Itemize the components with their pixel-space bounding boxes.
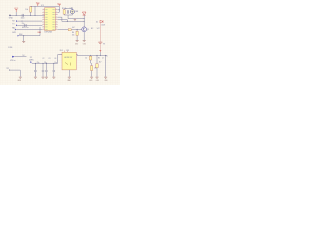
wire collector vertical xyxy=(83,19,85,27)
ic IC1 pins right xyxy=(55,10,57,30)
ground cap3 xyxy=(45,77,48,78)
capacitor column 3 xyxy=(45,63,47,76)
relay bottom stub xyxy=(68,70,70,77)
diode D1 red xyxy=(82,12,86,15)
capacitor C4 series xyxy=(25,24,26,27)
wire pulldown bottom xyxy=(76,35,78,40)
ic IC1 body xyxy=(45,8,56,31)
svg-text:GND: GND xyxy=(96,80,99,82)
power flag VCC mid xyxy=(36,3,41,7)
relay inner contacts xyxy=(65,63,71,66)
junction W1 xyxy=(22,21,23,22)
buzzer LS1 xyxy=(70,10,74,14)
svg-text:GND: GND xyxy=(104,80,107,82)
resistor R3 xyxy=(89,56,91,60)
power flag VCC right of IC xyxy=(57,3,62,6)
junction xyxy=(16,15,17,16)
svg-text:4k7: 4k7 xyxy=(99,62,102,64)
svg-text:RL1: RL1 xyxy=(60,50,63,52)
svg-text:GND: GND xyxy=(9,17,14,19)
svg-text:10k: 10k xyxy=(25,9,28,11)
svg-text:C6: C6 xyxy=(54,58,56,60)
svg-text:100n: 100n xyxy=(21,17,25,19)
junction base pulldown xyxy=(77,29,78,30)
svg-text:GND: GND xyxy=(89,80,92,82)
svg-text:HK19F 5V: HK19F 5V xyxy=(64,57,73,59)
junction xyxy=(59,9,60,10)
relay left stub xyxy=(59,54,62,56)
svg-text:GND: GND xyxy=(83,44,86,46)
wire W1 xyxy=(18,20,43,22)
svg-text:16F628A: 16F628A xyxy=(44,30,52,33)
svg-text:GND: GND xyxy=(75,44,78,46)
wire emitter xyxy=(83,32,85,41)
bus wire bottom right xyxy=(77,55,107,56)
ground cap1 xyxy=(34,77,37,78)
net flag W4 blue xyxy=(18,35,20,37)
svg-text:22p: 22p xyxy=(22,23,25,25)
svg-text:4k7: 4k7 xyxy=(72,27,75,29)
svg-text:4148: 4148 xyxy=(101,25,105,27)
resistor R2 vertical xyxy=(63,10,65,15)
svg-text:10k: 10k xyxy=(72,34,75,36)
svg-text:547: 547 xyxy=(97,28,100,30)
wire from flag xyxy=(15,56,27,58)
resistor R1 xyxy=(30,7,32,13)
svg-text:VDD in: VDD in xyxy=(10,60,15,62)
relay top stubs xyxy=(64,51,67,53)
wire vcc rail top xyxy=(31,6,60,15)
junction xyxy=(100,55,101,56)
ground A xyxy=(90,77,93,78)
junction bus B xyxy=(96,55,97,56)
junction xyxy=(67,21,68,22)
relay RL1 body xyxy=(62,52,76,70)
buzzer inner mark xyxy=(71,11,73,13)
transistor Q1 xyxy=(82,27,87,32)
junction xyxy=(30,15,31,16)
svg-text:RB4: RB4 xyxy=(19,34,22,36)
junction xyxy=(84,21,85,22)
ic IC1 pin numbers outside xyxy=(43,9,57,29)
junction bus A xyxy=(90,55,91,56)
resistor R6 horizontal xyxy=(68,29,71,31)
wire column C xyxy=(105,55,107,76)
svg-text:C2: C2 xyxy=(42,58,44,60)
wire pulldown top xyxy=(76,29,78,31)
wire cap bus xyxy=(32,55,62,64)
svg-text:D2: D2 xyxy=(96,22,98,24)
junction bus C xyxy=(105,55,106,56)
ic IC1 pin name dashes inner xyxy=(45,10,54,30)
net flag W1 blue xyxy=(16,20,18,22)
svg-text:22p: 22p xyxy=(37,62,40,64)
junction xyxy=(35,15,36,16)
svg-text:SW1: SW1 xyxy=(12,32,16,34)
ground relay xyxy=(68,77,71,78)
wire second branch xyxy=(58,20,68,22)
wire net VCC rail left xyxy=(10,14,44,16)
svg-text:RA4: RA4 xyxy=(38,31,41,34)
ground B xyxy=(96,77,99,78)
wire D3 down xyxy=(91,71,93,77)
wire osc top xyxy=(64,8,72,11)
pin pad left end xyxy=(9,15,10,16)
svg-text:IC1: IC1 xyxy=(41,5,44,7)
transistor inner xyxy=(83,28,85,31)
svg-text:Q1: Q1 xyxy=(87,29,89,31)
wire W2 xyxy=(18,24,43,26)
wire vcc right drop xyxy=(58,6,60,12)
wire W3 xyxy=(17,29,43,31)
wire pulldown xyxy=(23,36,25,42)
relay right stub to bus xyxy=(76,54,77,57)
power flag VCC left xyxy=(14,8,19,12)
ground R7 xyxy=(76,41,79,42)
svg-text:MCLR in: MCLR in xyxy=(22,27,29,29)
wire bottom left xyxy=(10,70,20,77)
svg-text:10u: 10u xyxy=(54,62,57,64)
svg-text:R5: R5 xyxy=(98,58,100,60)
wire IC to collector node xyxy=(58,17,84,21)
net flag blue left xyxy=(12,56,14,58)
net flag blue 2 xyxy=(30,61,31,63)
svg-text:4MHz: 4MHz xyxy=(29,59,34,61)
net flag W2 blue xyxy=(16,25,18,27)
net flag W3 blue xyxy=(15,29,17,31)
svg-text:C3: C3 xyxy=(48,58,50,60)
svg-text:CON1: CON1 xyxy=(8,47,13,49)
svg-text:TP1: TP1 xyxy=(6,68,9,70)
wire battery lower xyxy=(99,44,101,50)
wire osc bottom xyxy=(64,14,72,19)
resistor R7 vertical xyxy=(76,31,78,35)
wire to bus xyxy=(99,52,101,55)
wire D1 down xyxy=(83,15,85,19)
power flag red small xyxy=(99,50,101,52)
capacitor column 4 xyxy=(53,63,55,76)
wire R5 down xyxy=(96,68,98,77)
junction xyxy=(23,35,24,36)
ground left-mid xyxy=(22,41,25,42)
wire bottom run xyxy=(68,18,84,20)
wire vcc drop xyxy=(15,12,17,15)
svg-text:VCC: VCC xyxy=(36,3,41,5)
capacitor column 1 xyxy=(34,63,36,76)
net stub bottom left xyxy=(8,69,11,70)
capacitor C5 xyxy=(67,10,68,14)
ground C xyxy=(104,77,107,78)
svg-text:16M: 16M xyxy=(75,11,79,13)
battery B1 xyxy=(98,42,102,44)
capacitor column 2 xyxy=(42,63,44,76)
wire battery column xyxy=(99,23,101,42)
wire R3 to LED xyxy=(91,60,92,66)
led D3 xyxy=(90,66,92,71)
junction xyxy=(84,18,85,19)
svg-text:1k: 1k xyxy=(85,58,87,60)
ic IC1 pins left xyxy=(42,10,44,30)
resistor R5 xyxy=(96,64,98,68)
ground bottom left xyxy=(19,77,22,78)
ground small on run xyxy=(74,19,76,21)
ground Q1 emitter xyxy=(83,41,86,42)
wire W4 xyxy=(19,27,40,36)
svg-text:J2: J2 xyxy=(102,57,104,59)
diode D2 red xyxy=(100,20,103,23)
ground cap4 xyxy=(52,77,55,78)
wire R1 bottom xyxy=(30,12,32,15)
wire base from IC xyxy=(58,28,82,30)
ground cap2 xyxy=(42,77,45,78)
capacitor C1 xyxy=(22,14,23,17)
wire column B xyxy=(96,55,98,63)
